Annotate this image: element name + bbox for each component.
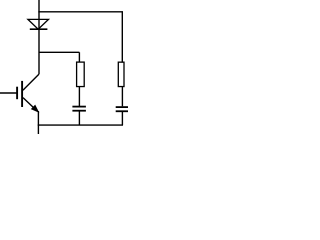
transistor Q1 base bar: [21, 81, 23, 107]
wire: top horizontal rail: [38, 11, 123, 13]
wire: collector diagonal to transistor Q1: [23, 74, 39, 90]
wire: R2 to C2: [121, 87, 123, 107]
wire: main vertical from top edge down to collector bend: [38, 0, 40, 74]
capacitor C1 bottom plate: [72, 110, 86, 112]
diode D1 cathode bar: [30, 28, 48, 30]
wire: base lead from left edge: [0, 92, 17, 94]
wire: C1 to bottom rail: [78, 111, 80, 125]
wire: emitter vertical through bottom rail to bottom edge: [37, 111, 39, 134]
wire: middle branch from main vertical to R1: [39, 51, 79, 53]
resistor R2: [118, 62, 124, 86]
wire: branch down to R1: [78, 52, 80, 62]
capacitor C2 bottom plate: [116, 110, 128, 112]
emitter arrowhead: [32, 105, 39, 111]
wire: C2 to bottom rail: [121, 112, 123, 125]
capacitor plate at base (left tick): [16, 87, 18, 100]
capacitor C2 top plate: [116, 106, 128, 108]
wire: right vertical from top rail to R2: [121, 12, 123, 63]
wire: bottom rail: [38, 124, 123, 126]
transistor Q1 emitter line: [23, 98, 35, 109]
diode D1 (triangle pointing down): [28, 19, 49, 29]
capacitor C1 top plate: [72, 106, 86, 108]
wire: R1 to C1: [78, 87, 80, 106]
resistor R1: [77, 62, 85, 86]
